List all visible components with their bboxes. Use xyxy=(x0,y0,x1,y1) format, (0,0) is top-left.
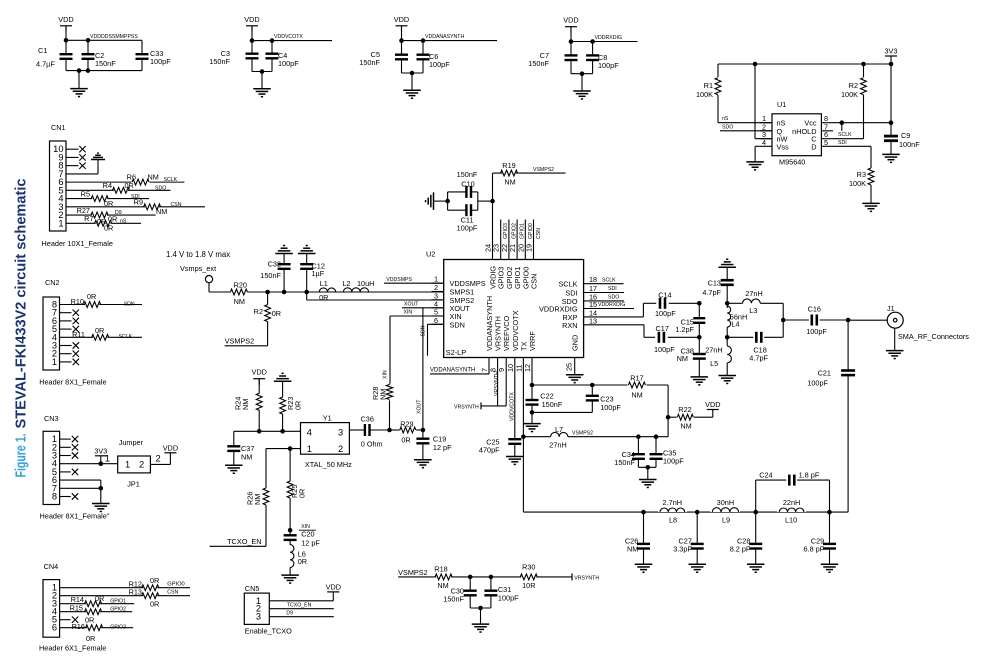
svg-text:6: 6 xyxy=(434,316,438,325)
svg-text:NM: NM xyxy=(627,545,638,554)
svg-text:SCLK: SCLK xyxy=(119,334,133,340)
svg-text:NM: NM xyxy=(680,422,691,431)
svg-text:VDD: VDD xyxy=(394,15,409,24)
svg-text:NM: NM xyxy=(437,581,448,590)
svg-text:R15: R15 xyxy=(70,604,83,613)
svg-text:150nF: 150nF xyxy=(528,59,549,68)
svg-text:1.4 V to 1.8 V max: 1.4 V to 1.8 V max xyxy=(166,250,230,259)
svg-text:1: 1 xyxy=(307,444,312,454)
svg-text:4: 4 xyxy=(307,427,312,437)
svg-text:1: 1 xyxy=(105,454,110,464)
svg-text:GPIO0: GPIO0 xyxy=(528,223,534,239)
svg-text:100pF: 100pF xyxy=(457,224,478,233)
svg-text:NM: NM xyxy=(677,354,688,363)
svg-text:GPIO1: GPIO1 xyxy=(520,223,526,239)
svg-text:Vsmps_ext: Vsmps_ext xyxy=(180,264,216,273)
svg-text:C20: C20 xyxy=(301,529,314,538)
svg-text:R22: R22 xyxy=(678,405,691,414)
svg-text:C9: C9 xyxy=(901,131,910,140)
svg-text:R1: R1 xyxy=(704,81,713,90)
svg-text:0R: 0R xyxy=(86,634,95,643)
svg-text:R20: R20 xyxy=(234,280,247,289)
svg-text:150nF: 150nF xyxy=(95,59,116,68)
svg-text:VSMPS2: VSMPS2 xyxy=(572,431,593,437)
svg-text:R2: R2 xyxy=(849,81,858,90)
svg-text:NM: NM xyxy=(631,390,642,399)
svg-text:1µF: 1µF xyxy=(312,269,325,278)
svg-text:C21: C21 xyxy=(818,369,831,378)
svg-text:R19: R19 xyxy=(502,161,515,170)
svg-text:150nF: 150nF xyxy=(359,58,380,67)
svg-text:3.3pF: 3.3pF xyxy=(673,545,692,554)
svg-text:VDDSMPS: VDDSMPS xyxy=(386,277,412,283)
svg-text:M95640: M95640 xyxy=(779,158,805,167)
svg-text:L9: L9 xyxy=(722,516,730,525)
svg-text:1.2pF: 1.2pF xyxy=(675,325,694,334)
svg-text:3V3: 3V3 xyxy=(885,47,898,56)
svg-text:NM: NM xyxy=(379,389,388,400)
svg-text:R16: R16 xyxy=(72,622,85,631)
svg-text:XTAL_50 MHz: XTAL_50 MHz xyxy=(305,460,352,469)
svg-text:12: 12 xyxy=(523,364,532,372)
svg-text:XOUT: XOUT xyxy=(404,302,419,308)
svg-text:25: 25 xyxy=(565,363,574,371)
svg-text:GPIO1: GPIO1 xyxy=(110,599,126,605)
svg-text:100pF: 100pF xyxy=(806,327,827,336)
svg-text:470pF: 470pF xyxy=(479,445,500,454)
svg-text:SDO: SDO xyxy=(155,185,166,191)
svg-text:SMA_RF_Connectors: SMA_RF_Connectors xyxy=(898,332,969,341)
svg-text:VDD: VDD xyxy=(563,16,578,25)
svg-text:Header 6X1_Female: Header 6X1_Female xyxy=(39,644,106,653)
svg-text:C36: C36 xyxy=(361,415,374,424)
svg-text:0R: 0R xyxy=(401,435,410,444)
svg-text:1: 1 xyxy=(125,460,130,470)
svg-text:VSMPS2: VSMPS2 xyxy=(533,167,554,173)
svg-text:R11: R11 xyxy=(72,330,85,339)
svg-text:10uH: 10uH xyxy=(357,279,374,288)
svg-text:3: 3 xyxy=(256,612,261,622)
svg-text:100pF: 100pF xyxy=(598,61,619,70)
svg-text:0R: 0R xyxy=(319,293,328,302)
svg-text:0R: 0R xyxy=(108,215,117,224)
svg-text:0R: 0R xyxy=(298,489,307,498)
svg-text:150nF: 150nF xyxy=(457,170,478,179)
svg-text:0R: 0R xyxy=(272,309,281,318)
svg-text:NM: NM xyxy=(156,207,167,216)
svg-text:SDI: SDI xyxy=(838,140,847,146)
svg-text:VDD: VDD xyxy=(326,582,341,591)
svg-text:R29: R29 xyxy=(400,419,413,428)
svg-text:NM: NM xyxy=(253,494,262,505)
svg-text:CN3: CN3 xyxy=(44,414,59,423)
svg-text:0R: 0R xyxy=(150,576,159,585)
svg-text:150nF: 150nF xyxy=(260,271,281,280)
svg-text:L1: L1 xyxy=(320,279,328,288)
svg-text:22nH: 22nH xyxy=(783,498,800,507)
svg-text:L2: L2 xyxy=(342,279,350,288)
svg-text:SDN: SDN xyxy=(124,301,135,307)
svg-text:J1: J1 xyxy=(887,304,895,313)
svg-text:2: 2 xyxy=(156,454,161,464)
svg-text:VRSYNTH: VRSYNTH xyxy=(494,371,500,396)
svg-text:Jumper: Jumper xyxy=(119,438,144,447)
svg-text:VRSYNTH: VRSYNTH xyxy=(454,405,479,411)
svg-text:C24: C24 xyxy=(759,470,772,479)
svg-text:100pF: 100pF xyxy=(150,57,171,66)
svg-text:CN4: CN4 xyxy=(44,562,59,571)
svg-text:CSN: CSN xyxy=(171,202,182,208)
svg-text:150nF: 150nF xyxy=(614,458,635,467)
svg-text:XIN: XIN xyxy=(383,370,389,379)
svg-text:R3: R3 xyxy=(857,170,866,179)
svg-text:C16: C16 xyxy=(808,305,821,314)
svg-text:R13: R13 xyxy=(129,588,142,597)
svg-text:R18: R18 xyxy=(434,564,447,573)
svg-text:L7: L7 xyxy=(555,425,563,434)
svg-text:VDD: VDD xyxy=(244,15,259,24)
svg-text:VDD: VDD xyxy=(705,400,720,409)
svg-text:2.7nH: 2.7nH xyxy=(663,498,682,507)
svg-text:R30: R30 xyxy=(522,563,535,572)
svg-text:XIN: XIN xyxy=(404,310,413,316)
svg-text:VDDDDSSMMPPSS: VDDDDSSMMPPSS xyxy=(90,34,138,40)
svg-text:R10: R10 xyxy=(71,297,84,306)
svg-text:U1: U1 xyxy=(777,100,786,109)
svg-text:TCXO_EN: TCXO_EN xyxy=(287,603,312,609)
svg-text:R7: R7 xyxy=(84,214,93,223)
svg-text:RXN: RXN xyxy=(562,321,577,330)
svg-text:6: 6 xyxy=(52,623,57,633)
svg-text:D9: D9 xyxy=(286,611,293,617)
svg-text:100pF: 100pF xyxy=(429,60,450,69)
svg-text:100K: 100K xyxy=(696,90,713,99)
svg-text:VDDANASYNTH: VDDANASYNTH xyxy=(430,368,475,374)
svg-text:8.2 pF: 8.2 pF xyxy=(730,545,751,554)
svg-text:GPIO0: GPIO0 xyxy=(167,582,184,588)
svg-text:GPIO3: GPIO3 xyxy=(110,624,126,630)
svg-text:SDO: SDO xyxy=(722,124,733,130)
svg-text:L8: L8 xyxy=(669,516,677,525)
svg-text:CSN: CSN xyxy=(167,589,178,595)
svg-text:100pF: 100pF xyxy=(655,309,676,318)
svg-text:1.8 pF: 1.8 pF xyxy=(799,470,820,479)
svg-text:SDI: SDI xyxy=(608,286,617,292)
svg-text:SCLK: SCLK xyxy=(602,277,616,283)
svg-text:Header 8X1_Female": Header 8X1_Female" xyxy=(40,512,110,521)
svg-text:19: 19 xyxy=(525,244,534,252)
svg-text:Y1: Y1 xyxy=(323,413,332,422)
svg-text:3: 3 xyxy=(338,427,343,437)
svg-text:30nH: 30nH xyxy=(717,498,734,507)
svg-text:CN2: CN2 xyxy=(45,278,60,287)
svg-text:CN5: CN5 xyxy=(245,584,260,593)
svg-text:1: 1 xyxy=(58,218,63,228)
svg-text:R4: R4 xyxy=(103,181,112,190)
svg-text:L4: L4 xyxy=(731,320,739,329)
svg-text:SDN: SDN xyxy=(421,325,427,336)
svg-text:4.7µF: 4.7µF xyxy=(36,60,55,69)
svg-text:VDD: VDD xyxy=(251,368,266,377)
svg-text:0R: 0R xyxy=(125,181,134,190)
svg-text:8: 8 xyxy=(52,492,57,502)
svg-text:CSN: CSN xyxy=(530,274,539,289)
svg-text:VDD: VDD xyxy=(163,443,178,452)
svg-text:NM: NM xyxy=(241,399,250,410)
svg-text:100pF: 100pF xyxy=(278,59,299,68)
svg-text:100K: 100K xyxy=(849,179,866,188)
svg-text:2: 2 xyxy=(139,460,144,470)
svg-text:R2: R2 xyxy=(254,307,263,316)
svg-text:SDO: SDO xyxy=(608,295,619,301)
svg-text:TCXO_EN: TCXO_EN xyxy=(227,537,261,546)
svg-text:NM: NM xyxy=(504,178,515,187)
svg-text:GND: GND xyxy=(571,335,580,351)
svg-text:4.7pF: 4.7pF xyxy=(749,353,768,362)
svg-text:CSN: CSN xyxy=(536,228,542,239)
svg-text:12 pF: 12 pF xyxy=(433,443,452,452)
svg-text:L5: L5 xyxy=(710,359,718,368)
svg-text:C10: C10 xyxy=(461,180,474,189)
svg-text:12 pF: 12 pF xyxy=(301,538,320,547)
svg-text:VSMPS2: VSMPS2 xyxy=(225,336,255,345)
svg-text:CN1: CN1 xyxy=(51,123,66,132)
svg-text:18: 18 xyxy=(589,275,597,284)
svg-text:D: D xyxy=(811,142,816,151)
svg-text:0R: 0R xyxy=(87,292,96,301)
svg-text:Header 8X1_Female: Header 8X1_Female xyxy=(39,378,106,387)
svg-text:NM: NM xyxy=(241,453,252,462)
svg-text:100pF: 100pF xyxy=(654,345,675,354)
svg-text:0R: 0R xyxy=(150,600,159,609)
svg-text:100pF: 100pF xyxy=(600,403,621,412)
svg-text:Vss: Vss xyxy=(777,142,790,151)
svg-text:SDN: SDN xyxy=(450,320,465,329)
svg-text:L3: L3 xyxy=(749,306,757,315)
svg-text:27nH: 27nH xyxy=(705,346,722,355)
svg-text:0R: 0R xyxy=(298,557,307,566)
svg-text:VSMPS2: VSMPS2 xyxy=(398,568,428,577)
svg-text:Header 10X1_Female: Header 10X1_Female xyxy=(42,239,113,248)
svg-text:0R: 0R xyxy=(104,224,113,233)
svg-text:6.8 pF: 6.8 pF xyxy=(804,545,825,554)
svg-text:R9: R9 xyxy=(134,197,143,206)
svg-text:STEVAL-FKI433V2 circuit schema: STEVAL-FKI433V2 circuit schematic xyxy=(13,179,30,429)
svg-text:1: 1 xyxy=(52,357,57,367)
svg-text:VRSYNTH: VRSYNTH xyxy=(574,575,599,581)
svg-text:0R: 0R xyxy=(85,616,94,625)
svg-text:C14: C14 xyxy=(658,291,671,300)
svg-text:5: 5 xyxy=(824,138,828,147)
svg-text:150nF: 150nF xyxy=(542,400,563,409)
svg-text:JP1: JP1 xyxy=(127,480,140,489)
svg-text:100K: 100K xyxy=(841,90,858,99)
svg-text:C1: C1 xyxy=(38,46,47,55)
svg-text:100pF: 100pF xyxy=(498,594,519,603)
svg-text:100pF: 100pF xyxy=(807,378,828,387)
svg-text:SCLK: SCLK xyxy=(558,280,577,289)
svg-text:C17: C17 xyxy=(656,324,669,333)
svg-text:Enable_TCXO: Enable_TCXO xyxy=(245,627,292,636)
svg-text:XOUT: XOUT xyxy=(417,399,423,414)
svg-text:VDDANASYNTH: VDDANASYNTH xyxy=(425,34,464,40)
svg-text:C13: C13 xyxy=(708,279,721,288)
svg-text:27nH: 27nH xyxy=(745,289,762,298)
svg-text:VRRF: VRRF xyxy=(528,331,537,351)
svg-text:NM: NM xyxy=(234,297,245,306)
svg-text:nS: nS xyxy=(722,116,729,122)
svg-text:0R: 0R xyxy=(95,326,104,335)
svg-text:R17: R17 xyxy=(630,373,643,382)
svg-text:100pF: 100pF xyxy=(663,457,684,466)
svg-text:C32: C32 xyxy=(268,260,281,269)
svg-text:SCLK: SCLK xyxy=(838,132,852,138)
svg-text:GPIO2: GPIO2 xyxy=(511,223,517,239)
svg-text:10R: 10R xyxy=(522,581,535,590)
svg-text:SCLK: SCLK xyxy=(164,177,178,183)
svg-text:2: 2 xyxy=(338,444,343,454)
svg-text:13: 13 xyxy=(589,316,597,325)
svg-text:VDDRXDIG: VDDRXDIG xyxy=(598,302,625,308)
svg-text:NM: NM xyxy=(148,173,159,182)
svg-text:VDDVCOTX: VDDVCOTX xyxy=(274,34,303,40)
svg-text:nS: nS xyxy=(120,218,127,224)
svg-text:0R: 0R xyxy=(95,594,104,603)
svg-text:0 Ohm: 0 Ohm xyxy=(361,440,383,449)
svg-text:150nF: 150nF xyxy=(209,57,230,66)
svg-text:Figure 1.: Figure 1. xyxy=(13,434,30,478)
svg-text:GPIO3: GPIO3 xyxy=(503,223,509,239)
svg-text:U2: U2 xyxy=(426,250,435,259)
svg-text:S2-LP: S2-LP xyxy=(446,348,466,357)
svg-text:R5: R5 xyxy=(81,189,90,198)
svg-text:4.7pF: 4.7pF xyxy=(702,288,721,297)
svg-text:VDD: VDD xyxy=(58,15,73,24)
svg-text:VDDRXDIG: VDDRXDIG xyxy=(595,35,622,41)
svg-text:27nH: 27nH xyxy=(549,441,566,450)
svg-text:GPIO2: GPIO2 xyxy=(110,607,126,613)
svg-text:100nF: 100nF xyxy=(899,140,920,149)
svg-text:0R: 0R xyxy=(294,401,303,410)
svg-text:150nF: 150nF xyxy=(443,595,464,604)
svg-text:VDDVCOTX: VDDVCOTX xyxy=(510,392,516,421)
svg-text:L10: L10 xyxy=(785,516,797,525)
